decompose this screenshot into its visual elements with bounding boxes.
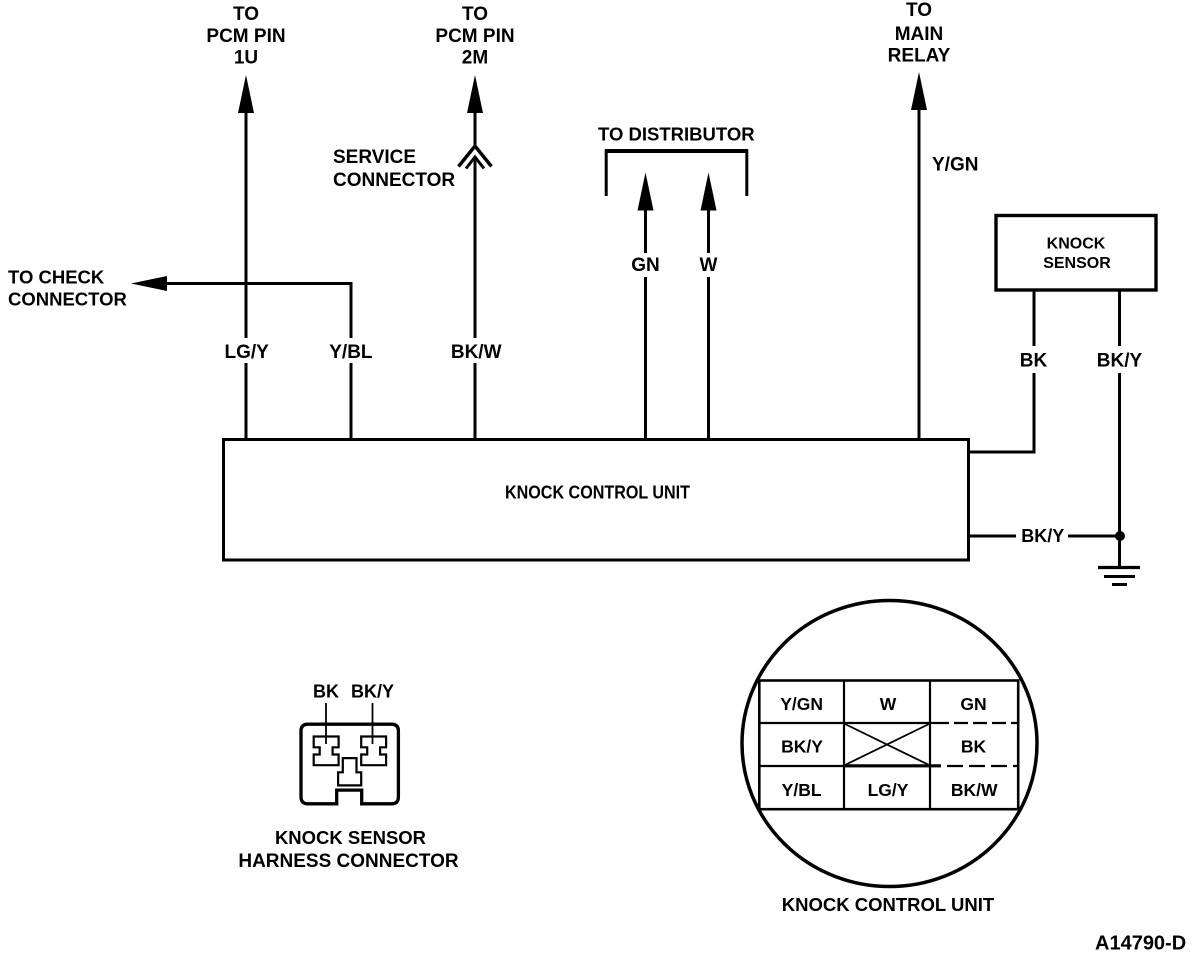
svg-text:TO: TO <box>906 0 932 21</box>
svg-text:Y/GN: Y/GN <box>932 155 978 176</box>
svg-text:W: W <box>880 694 897 714</box>
svg-text:BK: BK <box>313 682 339 702</box>
svg-text:KNOCK: KNOCK <box>1047 235 1106 252</box>
svg-text:KNOCK CONTROL UNIT: KNOCK CONTROL UNIT <box>505 483 690 503</box>
svg-text:TO: TO <box>233 4 259 25</box>
svg-text:CONNECTOR: CONNECTOR <box>333 170 455 191</box>
svg-text:MAIN: MAIN <box>895 24 944 45</box>
svg-text:BK/Y: BK/Y <box>351 682 394 702</box>
svg-text:BK/W: BK/W <box>951 780 998 800</box>
svg-text:SERVICE: SERVICE <box>333 147 416 168</box>
svg-text:Y/BL: Y/BL <box>782 780 822 800</box>
svg-text:Y/BL: Y/BL <box>329 342 373 363</box>
svg-text:PCM PIN: PCM PIN <box>435 26 514 47</box>
svg-text:RELAY: RELAY <box>888 46 951 67</box>
svg-text:LG/Y: LG/Y <box>868 780 909 800</box>
svg-text:1U: 1U <box>234 48 258 69</box>
svg-text:LG/Y: LG/Y <box>225 342 270 363</box>
svg-text:TO DISTRIBUTOR: TO DISTRIBUTOR <box>598 124 755 145</box>
svg-text:Y/GN: Y/GN <box>780 694 823 714</box>
svg-text:CONNECTOR: CONNECTOR <box>8 289 127 310</box>
svg-text:W: W <box>700 255 718 276</box>
svg-text:BK/Y: BK/Y <box>781 736 823 756</box>
svg-text:BK/Y: BK/Y <box>1097 351 1143 372</box>
svg-text:BK/W: BK/W <box>451 342 502 363</box>
svg-text:HARNESS CONNECTOR: HARNESS CONNECTOR <box>238 851 459 872</box>
svg-text:PCM PIN: PCM PIN <box>206 26 285 47</box>
svg-text:2M: 2M <box>462 48 488 69</box>
svg-text:KNOCK CONTROL UNIT: KNOCK CONTROL UNIT <box>782 894 995 915</box>
svg-text:A14790-D: A14790-D <box>1095 932 1186 954</box>
svg-text:BK: BK <box>1020 351 1048 372</box>
svg-text:TO: TO <box>462 4 488 25</box>
svg-text:KNOCK SENSOR: KNOCK SENSOR <box>275 827 426 848</box>
svg-text:TO CHECK: TO CHECK <box>8 267 105 288</box>
svg-text:GN: GN <box>960 694 986 714</box>
svg-text:BK/Y: BK/Y <box>1021 526 1064 546</box>
svg-text:BK: BK <box>961 736 987 756</box>
svg-text:GN: GN <box>631 255 660 276</box>
svg-text:SENSOR: SENSOR <box>1043 255 1111 272</box>
